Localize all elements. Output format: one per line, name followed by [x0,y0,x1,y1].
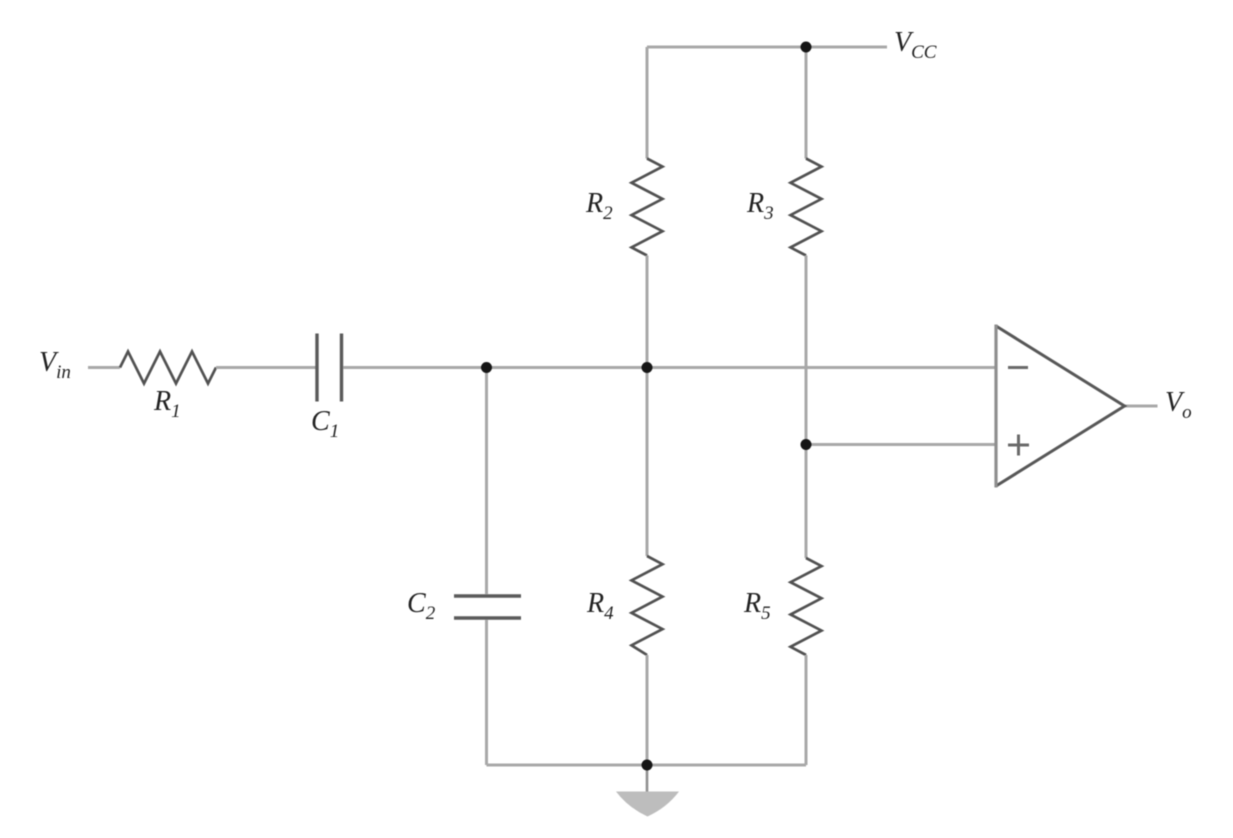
wire C2 top lead [485,368,488,595]
node VCC junction [801,42,812,53]
svg-text:Vo: Vo [1165,387,1192,423]
wire R5 top lead [805,445,808,559]
resistor R3 [791,159,822,256]
resistor R2 [632,159,663,256]
resistor R4 [632,556,663,655]
wire plus input [806,443,996,446]
svg-text:R1: R1 [153,386,181,422]
wire C2 bottom lead [485,620,488,765]
wire R2 top lead [646,47,649,159]
node R2/R4 junction [642,362,653,373]
svg-text:Vin: Vin [39,347,71,383]
op-amp left edge [994,325,997,488]
wire C1 to op-amp minus input [343,366,996,369]
resistor R1 [120,352,216,384]
capacitor C1 [317,334,342,402]
wire ground stem [646,765,649,795]
wire R3 bottom lead crossing main wire [805,256,808,445]
node ground junction [642,760,653,771]
wire R3 top lead [805,47,808,159]
svg-text:VCC: VCC [894,27,937,63]
node R3/R5 plus junction [801,439,812,450]
wire bottom rail [487,764,807,767]
capacitor C2 [454,596,521,618]
op-amp minus sign [1008,366,1028,369]
wire R4 bottom lead [646,655,649,765]
wire Vin lead [88,366,120,369]
svg-text:R5: R5 [743,588,771,624]
svg-text:C1: C1 [311,406,339,442]
svg-text:R4: R4 [586,588,614,624]
svg-text:C2: C2 [407,588,436,624]
svg-text:R2: R2 [585,188,613,224]
wire R4 top lead [646,368,649,557]
wire R2 bottom lead [646,256,649,368]
wire R5 bottom lead [805,655,808,765]
op-amp plus sign [1008,435,1029,456]
node C1/C2 junction [481,362,492,373]
ground [616,792,679,817]
resistor R5 [791,558,822,655]
wire top rail VCC [647,46,887,49]
wire op-amp output [1125,405,1158,408]
svg-text:R3: R3 [746,188,774,224]
op-amp U1 [996,326,1125,486]
wire R1 to C1 [216,366,316,369]
